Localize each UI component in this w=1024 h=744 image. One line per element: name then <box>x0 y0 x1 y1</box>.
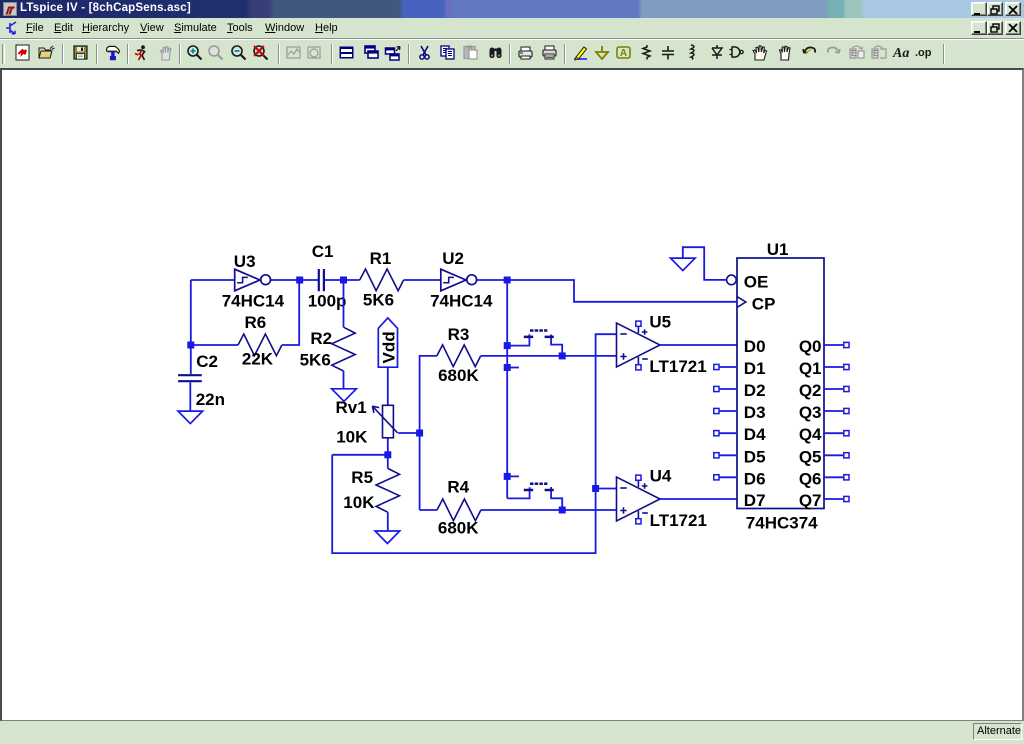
toolbar icon control panel hammer <box>107 46 120 60</box>
node junction U4 minus <box>592 485 599 492</box>
touch sensor 1 dashed plate <box>530 329 547 332</box>
resistor R2 body <box>332 327 355 371</box>
svg-text:LT1721: LT1721 <box>649 357 706 376</box>
toolbar icon zoom full extents <box>254 46 268 60</box>
svg-text:74HC14: 74HC14 <box>430 292 493 311</box>
pin D6 open marker <box>714 475 719 480</box>
wire R5 top lead <box>387 455 389 469</box>
toolbar icon rotate disabled <box>872 46 886 58</box>
node junction sensor1 left <box>504 342 511 349</box>
wire D5 stub <box>719 454 737 456</box>
wire Q4 stub <box>824 432 844 434</box>
svg-text:D1: D1 <box>744 359 766 378</box>
node junction sensor2 right <box>559 507 566 514</box>
pin Q7 open marker <box>844 496 849 501</box>
node junction stub1 <box>504 364 511 371</box>
wire left rail vertical <box>190 280 192 345</box>
toolbar icon diode <box>712 45 722 59</box>
toolbar icon find <box>490 48 502 59</box>
svg-text:R5: R5 <box>351 468 373 487</box>
wire C2 top lead <box>190 345 192 374</box>
svg-text:680K: 680K <box>438 366 479 385</box>
svg-text:D0: D0 <box>744 337 766 356</box>
wire D1 stub <box>719 366 737 368</box>
toolbar icon mirror disabled <box>850 46 864 58</box>
pin Q1 open marker <box>844 364 849 369</box>
wire R6 right to U3 output node <box>282 280 299 345</box>
wire R4 right to U4 plus <box>481 509 617 511</box>
pin D2 open marker <box>714 386 719 391</box>
svg-text:Q7: Q7 <box>799 491 822 510</box>
wire R3 left feed <box>420 356 437 510</box>
svg-text:5K6: 5K6 <box>363 291 394 310</box>
svg-text:OE: OE <box>744 273 769 292</box>
child window icon (transistor) <box>5 21 21 37</box>
svg-text:D5: D5 <box>744 447 766 466</box>
toolbar icon move <box>753 46 767 60</box>
status bar <box>0 721 1024 744</box>
svg-text:10K: 10K <box>343 493 375 512</box>
svg-text:10K: 10K <box>336 427 368 446</box>
wire D2 stub <box>719 388 737 390</box>
pin D4 open marker <box>714 431 719 436</box>
wire U5 output to D0 <box>660 344 737 346</box>
wire R2 top lead <box>343 280 345 327</box>
svg-text:74HC374: 74HC374 <box>746 514 818 533</box>
node junction stub2 <box>504 473 511 480</box>
svg-text:D2: D2 <box>744 381 766 400</box>
svg-text:Q4: Q4 <box>799 425 822 444</box>
wire Q0 stub <box>824 344 844 346</box>
svg-text:Q1: Q1 <box>799 359 822 378</box>
wire U3 input from left rail <box>191 279 235 281</box>
svg-text:Rv1: Rv1 <box>336 398 367 417</box>
node junction sensor1 right <box>559 352 566 359</box>
toolbar icon spice directive <box>915 47 932 59</box>
pin D5 open marker <box>714 453 719 458</box>
inverter U2 74HC14 <box>441 269 477 291</box>
svg-text:74HC14: 74HC14 <box>222 292 285 311</box>
touch sensor 1 plates <box>524 336 554 339</box>
toolbar icon draw wire <box>574 47 587 60</box>
menu bar <box>0 18 1024 40</box>
toolbar icon save <box>74 46 87 59</box>
wire U2 output to excitation node <box>477 279 507 281</box>
pin CP clock triangle <box>737 297 746 308</box>
wire D4 stub <box>719 432 737 434</box>
capacitor C1 plates <box>319 269 324 291</box>
wire Q2 stub <box>824 388 844 390</box>
wire minus rail <box>332 334 616 553</box>
svg-text:LT1721: LT1721 <box>650 511 707 530</box>
toolbar icon component <box>730 47 744 57</box>
toolbar icon cut <box>420 46 429 59</box>
wire U3 output to C1 <box>271 279 318 281</box>
wire R5 bottom lead <box>387 512 389 531</box>
svg-text:D6: D6 <box>744 469 766 488</box>
wire Rv1 bottom lead <box>387 438 389 455</box>
pin D1 open marker <box>714 364 719 369</box>
wire Q5 stub <box>824 454 844 456</box>
title bar <box>0 0 1024 18</box>
svg-text:680K: 680K <box>438 519 479 538</box>
svg-text:U4: U4 <box>650 466 672 485</box>
wire Rv1 wiper to node <box>398 432 420 434</box>
pin U5 V+ marker <box>636 321 641 326</box>
toolbar icon halt hand disabled <box>161 47 171 60</box>
wire sensor2 left electrode stem <box>507 487 529 498</box>
svg-text:R1: R1 <box>370 249 392 268</box>
toolbar icon waveform2 disabled <box>308 47 321 58</box>
toolbar icon print <box>543 46 556 59</box>
pin OE bubble <box>727 275 737 285</box>
op-amp U4 LT1721 comparator <box>617 477 661 521</box>
toolbar icon waveform disabled <box>287 47 300 58</box>
node junction Rv1 bottom / R5 top <box>384 451 391 458</box>
toolbar icon resistor <box>643 45 650 60</box>
svg-text:D3: D3 <box>744 403 766 422</box>
pin Q2 open marker <box>844 386 849 391</box>
wire R4 left lead <box>420 509 437 511</box>
toolbar icon zoom in <box>188 46 202 60</box>
svg-text:Vdd: Vdd <box>380 331 399 363</box>
net flag Vdd outline <box>378 318 397 367</box>
svg-text:22K: 22K <box>242 350 274 369</box>
wire C1 right to R1 <box>325 279 360 281</box>
svg-text:D7: D7 <box>744 491 766 510</box>
svg-text:U1: U1 <box>767 240 789 259</box>
svg-text:R2: R2 <box>310 329 332 348</box>
svg-text:Q0: Q0 <box>799 337 822 356</box>
wire excitation rail vertical <box>506 280 508 498</box>
svg-text:Q2: Q2 <box>799 381 822 400</box>
toolbar icon zoom out <box>232 46 246 60</box>
ground under R2 <box>332 389 357 402</box>
wire R3 right to U5 plus <box>481 355 617 357</box>
svg-text:R6: R6 <box>245 313 267 332</box>
toolbar icon copy <box>441 46 454 59</box>
resistor R3 body <box>437 345 481 367</box>
ground at OE <box>671 258 696 271</box>
toolbar icon zoom back disabled <box>209 46 223 60</box>
node junction U2 output <box>504 277 511 284</box>
toolbar icon inductor <box>691 45 694 60</box>
svg-text:D4: D4 <box>744 425 766 444</box>
wire R6 left lead <box>191 344 238 346</box>
pin Q3 open marker <box>844 408 849 413</box>
node junction C1/R1/R2 <box>340 277 347 284</box>
node junction wiper/R3 rail <box>416 430 423 437</box>
pin Q6 open marker <box>844 475 849 480</box>
toolbar icon undo <box>803 47 815 54</box>
svg-text:R4: R4 <box>447 478 469 497</box>
wire Vdd flag to Rv1 <box>387 367 389 405</box>
wire R1 to U2 input <box>404 279 441 281</box>
resistor R1 body <box>360 269 404 291</box>
wire D3 stub <box>719 410 737 412</box>
title text <box>20 2 191 14</box>
svg-text:R3: R3 <box>448 325 470 344</box>
toolbar icon capacitor <box>662 46 674 60</box>
svg-text:U3: U3 <box>234 252 256 271</box>
svg-text:C2: C2 <box>196 352 218 371</box>
touch sensor 2 dashed plate <box>530 482 547 485</box>
toolbar icon print setup <box>519 47 532 59</box>
node junction at C2 top / R6 left <box>187 342 194 349</box>
wire threshold node left <box>332 454 388 456</box>
potentiometer Rv1 body <box>372 405 397 438</box>
toolbar icon cascade windows <box>365 46 378 58</box>
wire Q6 stub <box>824 476 844 478</box>
wire stub channel 2 <box>507 475 519 477</box>
svg-text:U2: U2 <box>442 249 464 268</box>
svg-text:5K6: 5K6 <box>300 351 331 370</box>
wire Q3 stub <box>824 410 844 412</box>
toolbar icon redo disabled <box>828 47 840 53</box>
toolbar icon ground <box>596 46 608 59</box>
wire ground to OE <box>683 247 727 280</box>
svg-text:C1: C1 <box>312 242 334 261</box>
resistor R6 body <box>238 334 282 356</box>
svg-text:100p: 100p <box>308 292 347 311</box>
wire U4 output to D7 <box>660 498 737 500</box>
ic U1 74HC374 box <box>737 258 824 509</box>
toolbar <box>0 41 1024 68</box>
op-amp U5 LT1721 comparator <box>617 323 661 367</box>
svg-text:22n: 22n <box>196 390 225 409</box>
toolbar icon run <box>135 45 145 60</box>
wire R2 bottom lead <box>343 371 345 389</box>
toolbar icon tile windows <box>340 47 354 59</box>
pin U4 V+ marker <box>636 475 641 480</box>
node junction U3out/C1/R6 <box>296 277 303 284</box>
wire C2 bottom lead <box>189 382 191 411</box>
pin U4 V- marker <box>636 519 641 524</box>
toolbar icon net label <box>617 47 630 59</box>
ground under R5 <box>375 531 400 544</box>
wire sensor1 left electrode stem <box>507 334 529 345</box>
toolbar icon text <box>892 46 909 61</box>
toolbar icon new schematic <box>16 45 29 60</box>
toolbar icon paste disabled <box>464 46 477 60</box>
svg-text:CP: CP <box>752 295 776 314</box>
wire U4 minus lead <box>596 488 617 490</box>
resistor R5 body <box>376 468 399 512</box>
pin Q5 open marker <box>844 453 849 458</box>
pin Q0 open marker <box>844 342 849 347</box>
svg-text:Q6: Q6 <box>799 469 822 488</box>
resistor R4 body <box>437 499 481 521</box>
toolbar icon drag <box>780 46 791 60</box>
wire Q7 stub <box>824 498 844 500</box>
wire U2out to CP <box>507 280 737 302</box>
toolbar icon tile with arrow <box>386 47 401 61</box>
wire stub channel <box>507 367 519 369</box>
capacitor C2 plates <box>178 375 202 381</box>
svg-text:Q5: Q5 <box>799 447 822 466</box>
svg-text:Q3: Q3 <box>799 403 822 422</box>
svg-text:U5: U5 <box>649 313 671 332</box>
pin Q4 open marker <box>844 431 849 436</box>
pin D3 open marker <box>714 408 719 413</box>
app icon LTspice <box>3 2 17 16</box>
inverter U3 74HC14 <box>235 269 271 291</box>
wire Q1 stub <box>824 366 844 368</box>
touch sensor 2 plates <box>524 489 554 492</box>
wire D6 stub <box>719 476 737 478</box>
toolbar icon open <box>39 46 55 58</box>
wire sensor2 right electrode stem <box>551 487 562 510</box>
pin U5 V- marker <box>636 365 641 370</box>
ground under C2 <box>178 411 203 424</box>
wire sensor1 right electrode stem <box>551 335 562 356</box>
